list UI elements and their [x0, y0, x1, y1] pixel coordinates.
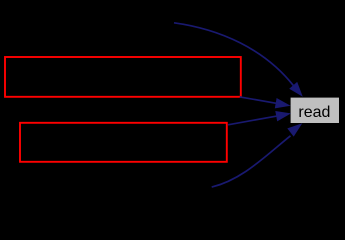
svg-text:read: read — [298, 104, 330, 121]
